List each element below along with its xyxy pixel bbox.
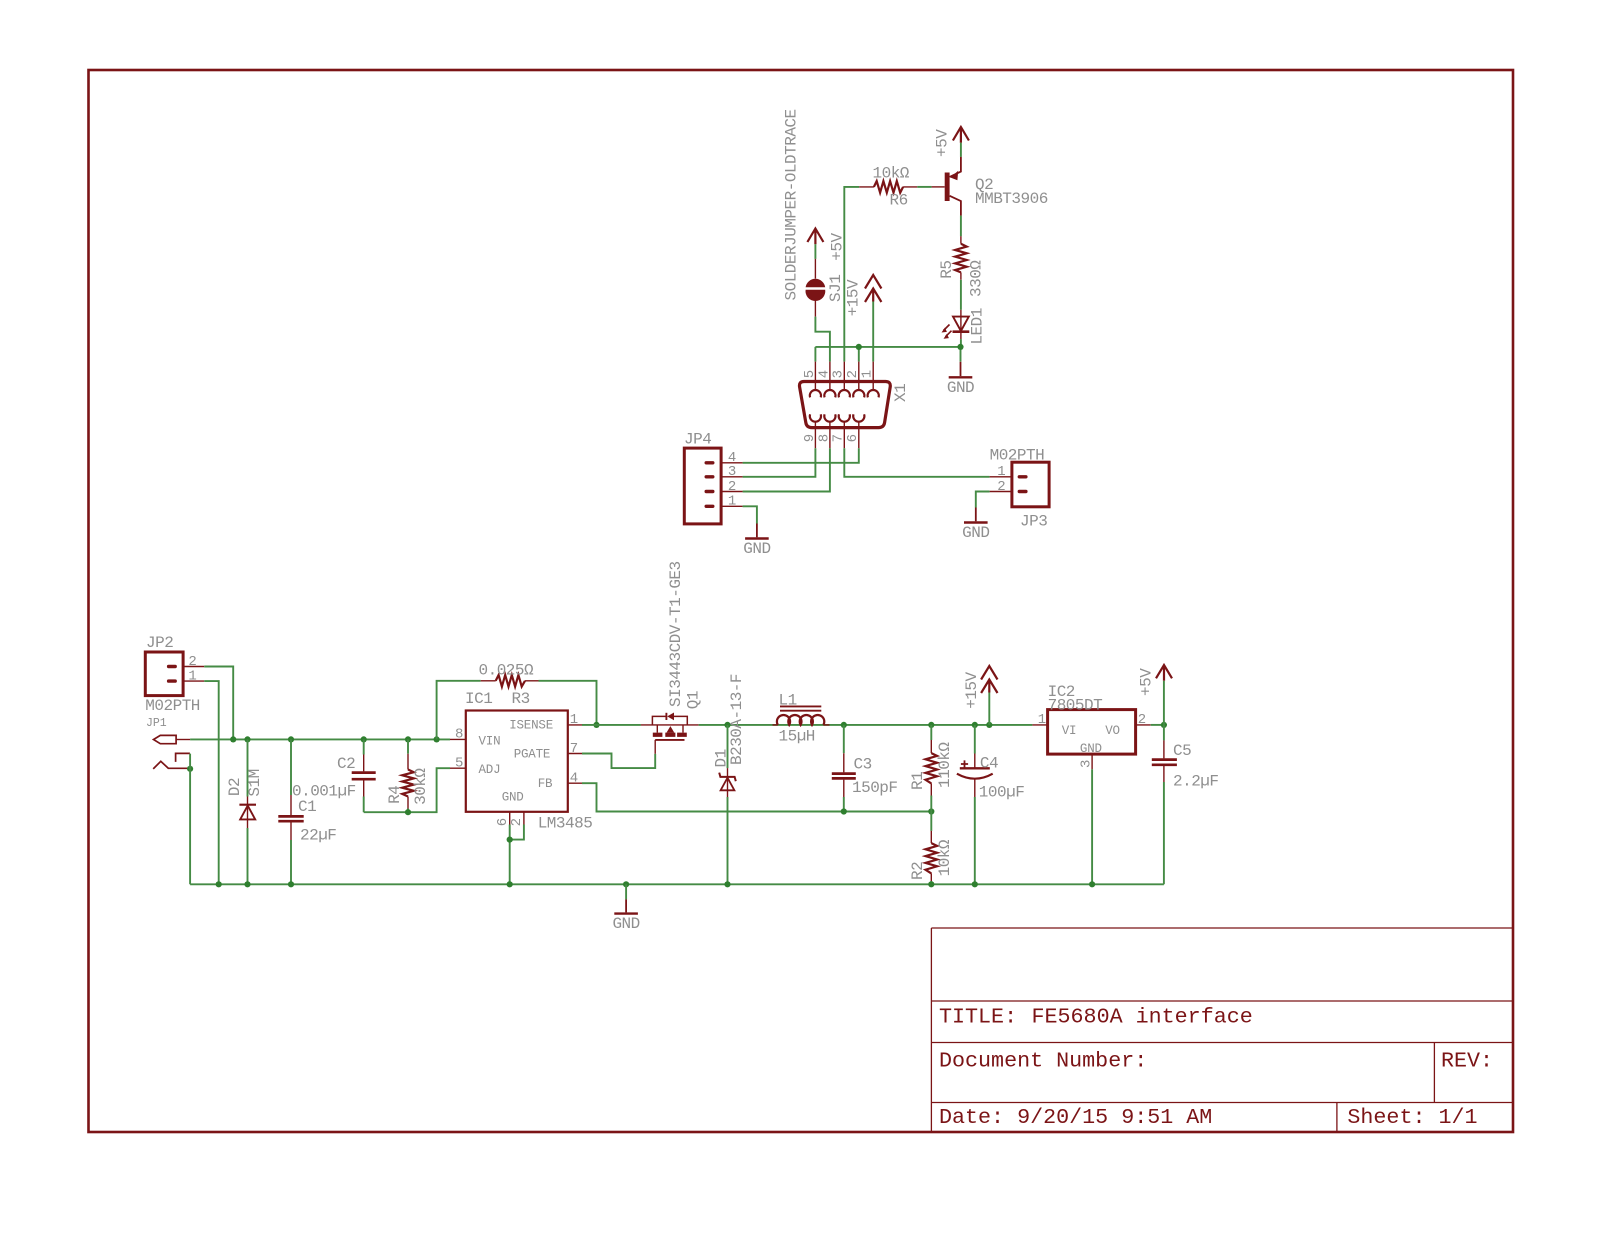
IC IC2 7805DT [1048,710,1136,755]
svg-text:MMBT3906: MMBT3906 [975,190,1048,208]
junction rail gnd symbol [623,881,629,887]
X1 bottom sockets [810,414,865,421]
svg-text:C3: C3 [854,756,872,774]
svg-text:7: 7 [570,741,578,757]
wire vin rail [190,738,450,740]
wire X1.7 to JP3.1 [844,448,989,477]
svg-text:C2: C2 [337,755,355,773]
svg-text:R1: R1 [909,772,927,790]
svg-text:VIN: VIN [479,734,501,748]
svg-text:M02PTH: M02PTH [990,447,1045,465]
junction gnd line at LED [957,344,963,350]
wire D2 top [247,739,249,796]
svg-text:C4: C4 [980,755,998,773]
wire IC2 gnd [1091,769,1093,884]
svg-text:2: 2 [509,818,525,826]
junction IC1 gnd [507,837,513,843]
svg-text:JP2: JP2 [146,634,173,652]
svg-text:3: 3 [728,464,736,480]
capacitor C4 (polarized) [974,754,976,798]
wire C2 top [363,739,365,754]
junction node R1 [928,722,934,728]
svg-text:R6: R6 [890,191,908,209]
wire C2 bottom [363,797,365,813]
svg-text:LED1: LED1 [969,308,987,344]
resistor R3 [481,680,539,682]
wire C3 bottom [843,797,845,812]
wire D1 top [727,725,729,768]
wire +5V to VO [1163,681,1165,725]
svg-text:JP1: JP1 [146,717,167,730]
junction vin D2 [244,736,250,742]
power +15V arrows (C4) [981,666,997,693]
TITLEBLOCK [931,928,1513,1132]
svg-text:GND: GND [1080,742,1102,756]
svg-text:10kΩ: 10kΩ [873,165,910,183]
svg-text:ADJ: ADJ [479,763,501,777]
junction rail IC1 gnd [507,881,513,887]
svg-text:REV:: REV: [1441,1049,1493,1074]
svg-text:2: 2 [188,654,196,670]
junction rail JP2.1 [216,881,222,887]
svg-text:SOLDERJUMPER-OLDTRACE: SOLDERJUMPER-OLDTRACE [783,109,801,300]
svg-text:VO: VO [1105,724,1120,738]
resistor R6 [859,186,917,188]
wire C4 bottom [974,797,976,884]
wire R3 left [437,681,481,740]
svg-text:B230A-13-F: B230A-13-F [728,674,746,765]
wire JP2.2 to vin rail [204,667,233,740]
resistor R4 [407,754,409,809]
svg-text:JP3: JP3 [1020,513,1047,531]
svg-text:L1: L1 [779,692,797,710]
transistor Q1 [641,725,699,754]
wire R1 bottom [930,796,932,812]
wire R3 right to ISENSE [539,681,597,725]
X1 top pin stubs [815,362,873,390]
capacitor C2 [363,755,365,797]
junction rail D2 [244,881,250,887]
junction node C3 [841,722,847,728]
resistor R1 [930,740,932,796]
svg-text:Sheet: 1/1: Sheet: 1/1 [1347,1105,1477,1130]
LED LED1 [960,310,962,339]
wire switch node [699,724,1033,726]
junction rail IC2 gnd [1089,881,1095,887]
wire R1 top [930,725,932,740]
capacitor C3 [843,753,845,797]
junction vin C1 [288,736,294,742]
ground GND (JP3) [975,508,977,522]
svg-text:LM3485: LM3485 [538,814,593,832]
svg-text:Q1: Q1 [685,691,703,709]
wire R6 to Q2 base [917,186,931,188]
wire C5 top [1163,725,1165,741]
wire X1.9 to JP4.3 [743,448,816,477]
junction FB C3 [841,808,847,814]
resistor R2 [930,831,932,881]
svg-text:5: 5 [455,755,463,771]
svg-text:TITLE:: TITLE: [939,1005,1017,1030]
junction node D1 [724,722,730,728]
wire gnd net (X1 pins 5,2) [815,347,960,362]
svg-text:GND: GND [612,915,639,933]
svg-text:330Ω: 330Ω [967,260,985,297]
titleblock outline [931,928,1513,1132]
svg-text:6: 6 [845,434,861,442]
wire C5 bottom [1163,782,1165,884]
svg-text:SI3443CDV-T1-GE3: SI3443CDV-T1-GE3 [667,561,685,707]
svg-text:3: 3 [1078,760,1094,768]
svg-text:JP4: JP4 [684,431,711,449]
wire +5V to SJ1 [814,244,816,259]
connector JP1 (power jack) [154,735,177,743]
wire Q2 collector to R5 [960,216,962,237]
wire FB net [582,783,931,811]
svg-text:8: 8 [455,727,463,743]
svg-text:2: 2 [997,479,1005,495]
svg-text:R2: R2 [909,862,927,880]
BOTTOMSECTION [145,561,1218,933]
svg-text:GND: GND [743,540,770,558]
IC IC1 LM3485 [466,711,568,812]
svg-text:2: 2 [1138,712,1146,728]
wire C3 top [843,725,845,753]
wire R4 bottom [407,809,409,813]
wire C1 bottom [290,840,292,884]
wire R2 bottom [930,881,932,884]
svg-text:ISENSE: ISENSE [509,718,553,732]
svg-text:R3: R3 [512,690,530,708]
svg-text:2: 2 [728,479,736,495]
svg-text:VI: VI [1062,724,1077,738]
svg-text:GND: GND [962,524,989,542]
svg-text:R5: R5 [938,260,956,278]
svg-text:4: 4 [570,771,578,787]
wire JP4.1 to gnd [743,506,757,523]
junction JP1 sleeve [187,766,193,772]
junction vin C2 [361,736,367,742]
junction FB R1 R2 [928,808,934,814]
power +5V arrow (at SJ1) [807,229,823,245]
junction VO node [1161,722,1167,728]
svg-text:S1M: S1M [246,769,264,796]
transistor Q2 [932,186,945,188]
svg-text:+5V: +5V [1138,668,1156,696]
svg-text:0.001µF: 0.001µF [292,783,356,801]
wire C4 top [974,725,976,754]
wire ground rail [190,883,1164,885]
TOPSECTION [684,109,1049,558]
wire PGATE net [582,754,655,769]
connector JP2 [145,652,183,696]
svg-text:PGATE: PGATE [514,747,551,761]
svg-text:SJ1: SJ1 [827,275,845,302]
wire D2 bottom [247,828,249,884]
junction ISENSE [593,722,599,728]
junction vin JP2.2 [230,736,236,742]
junction vin R4 [405,736,411,742]
diode D2 [247,797,249,829]
wire D1 bottom [727,797,729,884]
wire X1.8 to JP4.2 [743,448,830,491]
wire R4 top [407,739,409,753]
wire C1 top [290,739,292,795]
solder jumper SJ1 [814,259,816,317]
svg-text:+5V: +5V [934,129,952,157]
wire IC1 gnd pins [510,825,524,885]
wire R2 top [930,812,932,831]
power +15V arrows (X1 pin1) [865,275,881,302]
svg-text:150pF: 150pF [852,779,898,797]
svg-text:Date: 9/20/15 9:51 AM: Date: 9/20/15 9:51 AM [939,1105,1212,1130]
junction node C4 [972,722,978,728]
wire JP3.2 to gnd [976,492,990,508]
ground GND (bottom) [625,884,627,899]
connector JP4 [684,448,721,524]
svg-text:IC1: IC1 [465,690,492,708]
svg-text:1: 1 [860,370,876,378]
power +5V arrow (Q2) [953,127,969,143]
X1 bottom pin stubs [815,422,858,448]
wire +15V to node [988,693,990,725]
svg-text:2.2µF: 2.2µF [1173,773,1219,791]
ground GND (JP4) [756,524,758,538]
junction rail D1 [724,881,730,887]
ground GND (top) [960,362,962,376]
svg-text:110kΩ: 110kΩ [936,742,954,788]
svg-text:+15V: +15V [845,279,863,316]
wire LED1 to gnd line [960,339,962,347]
junction rail C4 [972,881,978,887]
inductor L1 [773,724,830,726]
svg-text:1: 1 [728,494,736,510]
junction vin R3 [434,736,440,742]
svg-text:C1: C1 [298,798,316,816]
wire X1.6 to JP4.4 [743,448,859,463]
svg-text:M02PTH: M02PTH [145,697,200,715]
svg-text:1: 1 [570,712,578,728]
svg-text:1: 1 [188,668,196,684]
svg-text:GND: GND [502,791,524,805]
svg-text:D2: D2 [226,778,244,796]
svg-text:C5: C5 [1173,742,1191,760]
svg-text:22µF: 22µF [300,827,336,845]
svg-text:+15V: +15V [963,671,981,708]
svg-text:FB: FB [538,777,553,791]
svg-text:1: 1 [997,464,1005,480]
svg-text:30kΩ: 30kΩ [412,768,430,805]
wire SJ1 to X1 pin4 [815,317,830,362]
svg-text:X1: X1 [892,384,910,402]
junction node +15V [986,722,992,728]
connector X1 (DB9) [799,382,890,428]
resistor R5 [960,236,962,279]
svg-text:Document Number:: Document Number: [939,1049,1147,1074]
junction rail C1 [288,881,294,887]
svg-text:GND: GND [947,379,974,397]
power +5V arrow (C5) [1156,665,1172,681]
wire X1 pin3 to R6 [844,187,859,362]
svg-text:10kΩ: 10kΩ [936,839,954,876]
svg-text:FE5680A interface: FE5680A interface [1032,1005,1253,1030]
svg-text:100µF: 100µF [979,784,1025,802]
capacitor C1 [290,795,292,840]
svg-text:1: 1 [1038,712,1046,728]
diode D1 (schottky) [727,768,729,797]
X1 top sockets [810,390,879,397]
svg-text:R4: R4 [386,786,404,804]
wire IC2 VO [1151,724,1164,726]
wire R5 to LED1 [960,280,962,310]
wire ISENSE to Q1 [582,724,641,726]
wire +15V to X1 pin1 [872,302,874,362]
junction gnd line at pin2 [856,344,862,350]
junction rail R2 [928,881,934,887]
svg-text:7805DT: 7805DT [1048,696,1103,714]
wire JP1 sleeve to gnd rail [189,754,191,885]
wire JP2.1 to gnd rail [204,681,219,884]
junction ADJ R4 [405,809,411,815]
svg-text:0.025Ω: 0.025Ω [479,661,535,679]
connector JP3 [1012,462,1049,507]
wire ADJ net [364,768,450,812]
capacitor C5 [1163,740,1165,782]
svg-text:15µH: 15µH [779,728,815,746]
wire +5V to Q2 emitter [960,143,962,157]
